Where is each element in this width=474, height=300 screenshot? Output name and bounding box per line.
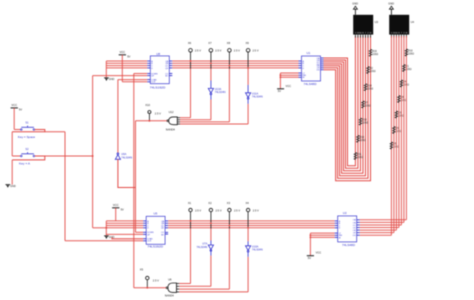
node junction X6 on bus (190, 60, 192, 62)
inverter U7A 74LS04N (label left) (208, 245, 213, 250)
resistor R9 220 Ohm (393, 127, 396, 134)
wire U1 segment g to display U3 (324, 36, 371, 181)
wire left tie vertical to ground (105, 61, 107, 78)
wire riser U12 output down to U5 DOWN (135, 121, 137, 233)
wire display U4 segment f column (403, 36, 405, 222)
wire display U4 segment a column (390, 36, 392, 235)
power VCC 5V (U1 blanking inputs) (277, 88, 284, 90)
resistor R15 220 Ohm (357, 135, 360, 142)
svg-text:X8: X8 (227, 41, 231, 45)
wire U1 segment c to display U3 (324, 36, 361, 171)
resistor R3 220 Ohm (395, 111, 398, 118)
wire U12 output row (136, 120, 167, 122)
wire U1 segment a to display U3 (324, 36, 356, 166)
wire X2 column to inverter U7A (210, 229, 212, 241)
wire U8 UP row from key S1 (93, 75, 148, 77)
wire X4 column to inverter U10A (247, 229, 249, 242)
svg-text:220Ω: 220Ω (362, 122, 368, 125)
svg-text:220Ω: 220Ω (372, 53, 378, 56)
svg-text:74LS04N: 74LS04N (196, 245, 207, 249)
svg-text:74LS48D: 74LS48D (304, 82, 318, 86)
resistor R5 220 Ohm (390, 142, 393, 149)
wire riser bottom to U5 bus (93, 227, 107, 229)
svg-text:74LS192D: 74LS192D (150, 85, 167, 89)
svg-text:U3: U3 (375, 20, 379, 24)
svg-text:CLR: CLR (147, 241, 152, 243)
inverter U11A 74LS04N (246, 93, 251, 98)
wire U8 LOAD row from inverter U9A (118, 79, 147, 81)
wire X6 column to NAND U12 input 1 (190, 69, 192, 118)
svg-text:5V: 5V (127, 54, 130, 58)
wire riser S2 to U8 UP and U5 bus (92, 76, 94, 228)
svg-text:X4: X4 (246, 201, 250, 205)
wire U10A output to NAND U6 input 4 (247, 252, 249, 257)
ground GND (bottom bus) (105, 236, 107, 238)
display U4 seven-segment (common) (389, 15, 409, 35)
svg-text:NAND4: NAND4 (166, 127, 176, 131)
power VCC 5V (U2 blanking inputs) (307, 255, 314, 257)
svg-text:74LS04N: 74LS04N (121, 155, 132, 159)
svg-text:5V: 5V (278, 89, 281, 93)
wire left tie vertical (bottom) (105, 221, 107, 236)
wire U1 segment e to display U3 (324, 36, 366, 176)
svg-text:220Ω: 220Ω (370, 70, 376, 73)
svg-text:74LS192D: 74LS192D (147, 245, 164, 249)
svg-text:S2: S2 (25, 147, 29, 151)
svg-text:U2: U2 (343, 211, 347, 215)
wire U8 data bus rows (A-D inputs) (106, 60, 147, 62)
display U3 seven-segment (common) (353, 15, 373, 35)
wire U6 output row to riser (134, 287, 166, 289)
wire U2 segment e row (360, 229, 397, 231)
resistor R2 220 Ohm (367, 67, 370, 74)
resistor R16 220 Ohm (369, 49, 372, 56)
wire U8 DOWN row from NAND U6 riser (134, 73, 148, 75)
svg-text:VCC: VCC (286, 84, 292, 88)
wire U13A output to NAND U12 input 2 (210, 94, 212, 99)
wire left chain down to S2 (11, 132, 13, 156)
svg-text:VCC: VCC (119, 50, 125, 54)
svg-text:X2: X2 (208, 201, 212, 205)
svg-text:2.5 V: 2.5 V (195, 49, 201, 53)
svg-text:NAND4: NAND4 (165, 293, 175, 297)
wire riser U9A output to U8 LOAD (117, 80, 119, 153)
resistor R11 220 Ohm (354, 153, 357, 160)
wire U1 segment d to display U3 (324, 36, 363, 173)
wire bus QA-QD from U8 to U1 (172, 60, 298, 62)
wire U1 segment b to display U3 (324, 36, 358, 168)
svg-text:U4: U4 (411, 20, 415, 24)
ground GND (top left bus) (105, 78, 107, 80)
switch S2 Key = A (12, 155, 20, 157)
inverter U10A 74LS04N (246, 246, 251, 251)
counter U8 74LS192D (150, 56, 169, 84)
wire VCC stem down to CLR row (121, 55, 123, 82)
node junction X4 on bus (247, 227, 249, 229)
resistor R14 220 Ohm (364, 84, 367, 91)
svg-text:2.5 V: 2.5 V (155, 112, 161, 116)
svg-text:GND: GND (352, 1, 358, 5)
resistor R7 220 Ohm (362, 101, 365, 108)
wire VCC drop for U1 (279, 73, 281, 89)
node junction S2 row on riser (92, 155, 94, 157)
svg-text:CLR: CLR (151, 82, 156, 84)
svg-text:220Ω: 220Ω (408, 53, 414, 56)
wire U2 LT/RBI/BI rows to VCC (310, 232, 334, 234)
wire chain down to ground (11, 160, 13, 185)
svg-text:Key = A: Key = A (19, 162, 30, 166)
svg-text:X5: X5 (140, 268, 144, 272)
svg-text:U12: U12 (169, 110, 174, 114)
svg-text:U1: U1 (307, 51, 311, 55)
wire U1 segment f to display U3 (324, 36, 369, 178)
wire riser from NAND U6 output to U8 DOWN (133, 74, 135, 288)
svg-text:220Ω: 220Ω (367, 87, 373, 90)
nand gate U12 NAND4 (4-input, mirrored) (169, 117, 178, 125)
wire display U4 segment g column (405, 36, 407, 220)
svg-text:2.5 V: 2.5 V (195, 208, 201, 212)
wire display U4 segment c column (395, 36, 397, 230)
wire U2 segment f row (360, 232, 394, 234)
wire U2 segment g row (360, 234, 392, 236)
node junction X8 on bus (228, 65, 230, 67)
svg-text:2.5 V: 2.5 V (253, 49, 259, 53)
svg-text:VCC: VCC (113, 203, 119, 207)
wire VCC stem to U5 bus (115, 208, 117, 221)
svg-text:OG: OG (353, 235, 357, 237)
svg-text:S1: S1 (25, 121, 29, 125)
svg-text:X1: X1 (188, 201, 192, 205)
wire display U4 segment d column (398, 36, 400, 228)
wire X3 column to NAND U6 input 3 (228, 229, 230, 289)
node junction X7 on bus (210, 62, 212, 64)
svg-text:U6: U6 (168, 278, 172, 282)
wire VCC to S1 (13, 108, 15, 130)
svg-text:VCC: VCC (316, 251, 322, 255)
svg-text:Key = Space: Key = Space (18, 135, 36, 139)
wire U3 pin stubs (354, 35, 356, 38)
svg-text:2.5 V: 2.5 V (234, 49, 240, 53)
node junction U2 VCC rows (310, 234, 312, 236)
node junction X1 on bus (190, 220, 192, 222)
wire display U4 segment e column (400, 36, 402, 225)
wire U2 segment c row (360, 224, 402, 226)
wire S2 loop (12, 156, 45, 160)
wire S2 row to riser (45, 155, 93, 157)
wire U1 LT/RBI/BI rows to VCC (280, 72, 298, 74)
svg-text:X6: X6 (188, 41, 192, 45)
svg-text:OG: OG (316, 70, 320, 72)
wire U9A input path (118, 159, 136, 187)
svg-text:74LS04N: 74LS04N (252, 248, 263, 252)
svg-text:220Ω: 220Ω (365, 105, 371, 108)
svg-text:220Ω: 220Ω (360, 139, 366, 142)
svg-text:2.5 V: 2.5 V (234, 208, 240, 212)
svg-text:2.5 V: 2.5 V (253, 208, 259, 212)
wire X8 column to NAND U12 input 3 (228, 69, 230, 122)
wire display U4 segment b column (393, 36, 395, 233)
node junction X2 on bus (210, 222, 212, 224)
wire X9 column to inverter U11A (247, 69, 249, 85)
svg-text:X7: X7 (208, 41, 212, 45)
wire U2 segment d row (360, 227, 399, 229)
svg-text:BO: BO (165, 76, 168, 78)
inverter U13A 74LS04N (208, 88, 213, 93)
wire X7 column to inverter U13A (210, 69, 212, 81)
wire bus QA-QD from U5 to U2 (168, 220, 335, 222)
wire NAND U6 input rows (179, 283, 190, 285)
wire branch S1 down to U5 CLR (64, 132, 66, 241)
resistor R1 220 Ohm (403, 65, 406, 72)
svg-text:5V: 5V (121, 207, 124, 211)
wire U5 data bus rows (106, 220, 143, 222)
svg-text:X3: X3 (227, 201, 231, 205)
svg-text:2.5 V: 2.5 V (215, 49, 221, 53)
wire U5 UP row (106, 233, 143, 235)
svg-text:BO: BO (161, 234, 164, 236)
wire X1 column to NAND U6 input 1 (190, 229, 192, 284)
ground GND (keys) (7, 185, 9, 187)
wire U7A output to NAND U6 input 2 (210, 256, 212, 287)
resistor R4 220 Ohm (400, 80, 403, 87)
node junction X9 on bus (247, 67, 249, 69)
decoder U1 74LS48D (302, 56, 321, 81)
svg-text:5V: 5V (308, 256, 311, 260)
nand gate U6 NAND4 (4-input, mirrored) (168, 283, 177, 292)
svg-text:74LS04N: 74LS04N (252, 95, 263, 99)
counter U5 74LS192D (146, 216, 165, 244)
wire NAND U12 input rows (180, 117, 191, 119)
switch S1 Key = Space (14, 129, 20, 131)
node junction X3 on bus (228, 225, 230, 227)
wire U4 pin stubs (390, 35, 392, 38)
svg-text:GND: GND (388, 1, 394, 5)
node junction U1 VCC rows (280, 74, 282, 76)
svg-text:GND: GND (10, 184, 16, 188)
decoder U2 74LS48D (338, 216, 357, 242)
node junction X10 on U12 output (148, 120, 150, 122)
wire S1 row to branch corner (45, 131, 65, 133)
wire S1 loop (12, 130, 45, 132)
resistor R13 220 Ohm (359, 118, 362, 125)
svg-text:VCC: VCC (11, 103, 17, 107)
svg-text:5V: 5V (19, 107, 22, 111)
svg-text:U8: U8 (156, 52, 160, 56)
node junction S2 row (105, 227, 107, 229)
node junction X5 on U6 output (146, 287, 148, 289)
resistor R8 220 Ohm (398, 96, 401, 103)
resistor R10 220 Ohm (405, 49, 408, 56)
wire U5 LOAD row (112, 237, 143, 239)
svg-text:GND: GND (109, 77, 115, 81)
svg-text:74LS04N: 74LS04N (215, 90, 226, 94)
wire U11A output to NAND U12 input 4 (247, 99, 249, 104)
wire U5 DOWN row (136, 231, 144, 233)
svg-text:74LS48D: 74LS48D (342, 243, 356, 247)
svg-text:220Ω: 220Ω (357, 156, 363, 159)
wire VCC drop for U2 (309, 233, 311, 255)
svg-text:X9: X9 (246, 41, 250, 45)
svg-text:2.5 V: 2.5 V (216, 208, 222, 212)
svg-text:U5: U5 (154, 211, 158, 215)
wire U8 CLR row (122, 81, 147, 83)
inverter U9A 74LS04N (pointing up) (115, 155, 120, 160)
svg-text:2.5 V: 2.5 V (153, 279, 159, 283)
svg-text:X10: X10 (145, 103, 150, 107)
wire U2 segment b row (360, 221, 404, 223)
wire U2 segment a row (360, 219, 407, 221)
